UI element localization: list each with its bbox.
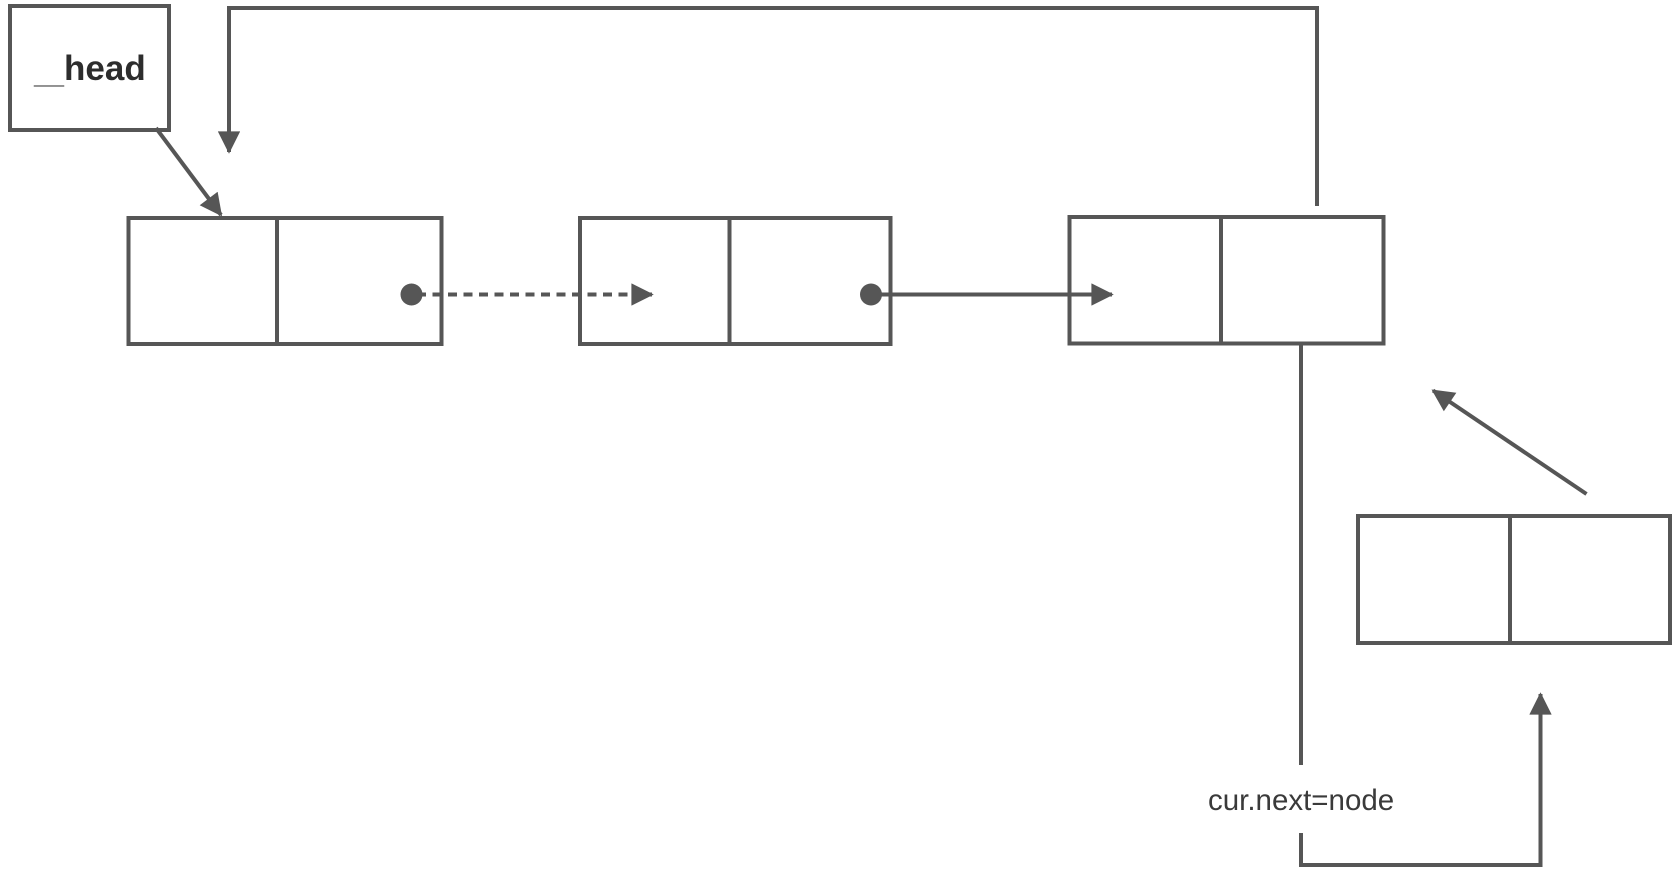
arrow node4 up-left toward node3 [1433, 391, 1587, 495]
dashed arrow node1 to node2 [417, 293, 652, 297]
node 2 box [580, 218, 891, 344]
node 4 box [1358, 516, 1670, 643]
node 1 box [129, 218, 442, 344]
pointer dot in node 2 [860, 284, 882, 306]
arrow head-box to node1 [156, 128, 221, 215]
pointer dot in node 1 [401, 284, 423, 306]
solid arrow node2 to node3 [871, 293, 1112, 297]
node 3 box [1070, 217, 1384, 344]
wire: node3 bottom down (upper segment) [1299, 344, 1303, 766]
wire: loop from top back down to node3 (elbow) [229, 8, 1317, 206]
head box [10, 6, 169, 130]
wire: bottom elbow with arrow up to node4 [1301, 694, 1541, 865]
svg-text:cur.next=node: cur.next=node [1208, 784, 1394, 817]
